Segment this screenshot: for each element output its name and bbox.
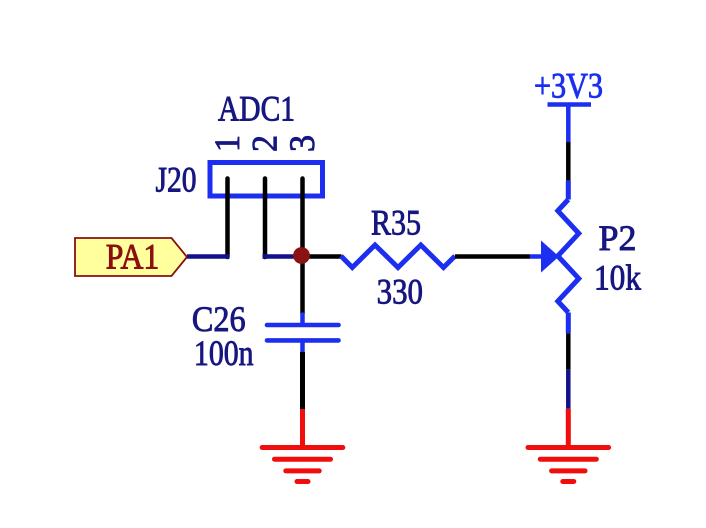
wire +3V3 to P2: [566, 142, 571, 180]
connector J20 body: [210, 163, 323, 197]
wire J20 pin 2 to junction: [263, 254, 303, 259]
wire junction to R35: [303, 254, 342, 259]
wire C26 to ground: [300, 352, 305, 409]
potentiometer P2: [530, 181, 579, 334]
svg-text:P2: P2: [599, 218, 637, 258]
svg-text:10k: 10k: [594, 258, 641, 298]
J20 pin 2: [263, 179, 268, 258]
svg-text:J20: J20: [156, 160, 197, 200]
svg-text:1: 1: [207, 135, 247, 152]
ground symbol (P2): [528, 409, 609, 482]
J20 pin 3: [300, 179, 305, 258]
port PA1: [75, 237, 187, 277]
svg-text:3: 3: [282, 135, 322, 152]
wire R35 to P2 wiper: [455, 254, 530, 259]
ground symbol (C26): [262, 409, 343, 482]
svg-text:330: 330: [377, 272, 423, 312]
svg-text:PA1: PA1: [106, 237, 160, 277]
J20 pin 1: [225, 179, 230, 258]
resistor R35: [341, 245, 455, 268]
wire P2 to ground (navy segment): [566, 370, 571, 409]
svg-text:100n: 100n: [194, 333, 254, 373]
svg-text:2: 2: [244, 135, 284, 152]
svg-text:+3V3: +3V3: [534, 66, 603, 106]
wire PA1 to J20 pin 1: [187, 254, 230, 259]
svg-text:R35: R35: [371, 202, 421, 242]
wire P2 to ground (black segment): [566, 333, 571, 369]
svg-text:ADC1: ADC1: [218, 89, 295, 129]
power +3V3: [534, 66, 603, 144]
capacitor C26: [267, 315, 339, 352]
junction node: [293, 247, 310, 264]
wire J20 pin 3 down to capacitor: [300, 256, 305, 314]
